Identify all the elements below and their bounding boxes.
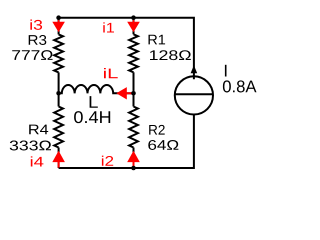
current arrow i3 head [52, 22, 65, 32]
current arrow i2 head [127, 151, 140, 162]
current arrow i4 tail [58, 161, 60, 168]
wire bottom rail and right rise to current source [59, 115, 194, 169]
current source bar [175, 93, 213, 95]
label 64 ohm [148, 140, 178, 150]
label i1 [103, 22, 114, 32]
label L [90, 96, 98, 108]
label i4 [31, 156, 44, 166]
label R1 [149, 35, 166, 45]
node dot top left [56, 15, 61, 20]
wire left branch lower lead [58, 148, 60, 169]
label 0.8A [223, 80, 257, 92]
label i3 [30, 20, 42, 30]
label i2 [102, 156, 113, 166]
label R3 [29, 35, 47, 45]
current arrow i2 tail [133, 161, 135, 168]
label I [225, 65, 227, 77]
resistor R1 [129, 34, 138, 72]
current arrow i1 tail [133, 18, 135, 23]
node dot mid left [56, 91, 61, 96]
current arrow iL head [116, 87, 127, 99]
wire middle branch upper lead [133, 18, 135, 35]
wire left branch upper lead [58, 18, 60, 35]
resistor R4 [54, 107, 63, 148]
wire middle branch middle [133, 72, 135, 106]
current arrow iL tail [126, 92, 133, 94]
label 777 ohm [12, 50, 52, 60]
current source I circle [175, 76, 213, 114]
current source arrow [191, 65, 198, 73]
current arrow i1 head [127, 22, 140, 32]
node dot mid right [131, 91, 136, 96]
current arrow i3 tail [58, 18, 60, 23]
inductor L [59, 85, 134, 93]
label R4 [29, 125, 48, 135]
label 333 ohm [10, 141, 51, 151]
node dot bottom middle [131, 166, 136, 171]
label iL [104, 68, 118, 78]
resistor R2 [129, 107, 138, 148]
wire left branch middle [58, 72, 60, 106]
label 0.4H [74, 111, 110, 123]
label R2 [149, 125, 165, 135]
wire top rail and right drop to current source [59, 18, 194, 80]
resistor R3 [54, 34, 63, 72]
node dot top middle [131, 15, 136, 20]
current arrow i4 head [52, 151, 65, 162]
wire middle branch lower lead [133, 148, 135, 169]
label 128 ohm [150, 50, 191, 60]
